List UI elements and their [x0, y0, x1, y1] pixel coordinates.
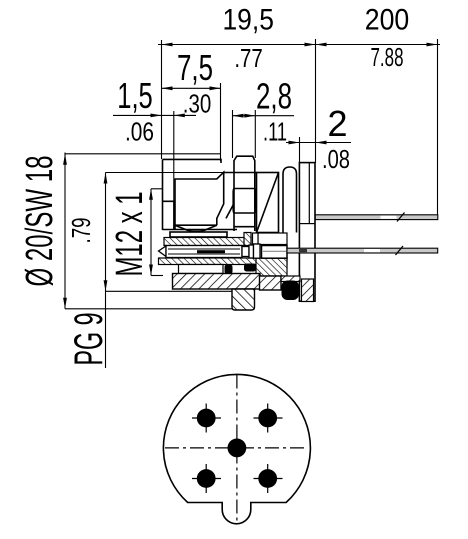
contact collar 2 — [254, 244, 261, 258]
o-ring small 2 — [244, 264, 256, 272]
pin 3 bottom-left — [192, 464, 221, 493]
body top crest line — [163, 159, 222, 163]
pin 4 bottom-right — [254, 464, 283, 493]
svg-text:.06: .06 — [125, 117, 154, 147]
gland right bottom hatch — [260, 276, 282, 290]
arrow 7,5 left — [162, 86, 173, 90]
svg-text:Ø 20/SW 18: Ø 20/SW 18 — [19, 156, 61, 287]
dimension PG9 vertical line — [105, 173, 107, 369]
shroud block — [175, 172, 224, 229]
arrow PG9 bottom — [104, 280, 108, 291]
svg-text:.79: .79 — [66, 218, 96, 244]
arrow 200 left — [316, 43, 327, 47]
arrow dia20 bottom — [63, 298, 67, 309]
hatch strip under contact — [159, 258, 288, 265]
arrow M12 top — [149, 189, 153, 200]
dimension 2,8 line — [233, 115, 295, 117]
contact barrel — [166, 246, 242, 258]
arrow 1,5 right — [174, 114, 185, 118]
white block at hex foot — [253, 233, 259, 244]
arrow 200 right — [427, 43, 438, 47]
extension line x255.3 — [254, 110, 256, 158]
svg-text:7,5: 7,5 — [177, 47, 213, 88]
flange plate — [299, 163, 315, 302]
pin 2 top-right — [254, 404, 283, 433]
arrow 2,8 right — [244, 114, 255, 118]
gasket dome — [283, 167, 297, 233]
arrow 19,5 right — [305, 43, 316, 47]
flange lower hatch — [302, 279, 314, 302]
cone piece — [257, 173, 279, 233]
svg-text:19,5: 19,5 — [222, 4, 274, 37]
thread relief block — [163, 201, 175, 229]
face view outline — [163, 374, 310, 523]
carrier hatch band top — [164, 238, 251, 246]
extension line x299.5 — [299, 137, 301, 163]
arrow PG9 top — [104, 173, 108, 184]
extension line y308.8 — [65, 308, 233, 310]
PG9 thread tab hatch — [232, 289, 255, 310]
body left edge — [162, 159, 164, 230]
termination barrel — [262, 246, 288, 259]
white block under dome — [258, 233, 287, 245]
o-ring small 1 — [225, 265, 233, 275]
extension line x173.8 — [173, 111, 175, 230]
dimension dia20 SW18 vertical line — [64, 153, 66, 309]
extension line x161.5 — [161, 40, 163, 159]
shroud chevron — [175, 225, 217, 231]
svg-text:.77: .77 — [234, 43, 263, 73]
extension line y153.8 — [65, 153, 221, 155]
dimension 7,5 line — [162, 87, 221, 89]
bridge top face — [224, 172, 257, 174]
contact step — [242, 247, 249, 257]
contact black dash — [197, 250, 225, 253]
svg-text:2,8: 2,8 — [256, 76, 292, 117]
svg-text:.30: .30 — [183, 89, 212, 119]
arrow 19,5 left — [162, 43, 173, 47]
arrow dia20 top — [63, 154, 67, 165]
carrier cavity white — [179, 265, 224, 274]
svg-text:PG 9: PG 9 — [67, 313, 111, 366]
hex nut column — [234, 156, 255, 231]
extension line y291.3 — [106, 290, 233, 292]
panel o-ring black — [282, 281, 300, 301]
wire top — [315, 213, 438, 222]
pin 1 top-left — [192, 404, 221, 433]
contact collar 1 — [249, 245, 254, 258]
extension line y275.5 — [151, 275, 163, 277]
arrow 2 left outside — [289, 141, 300, 145]
shroud bottom line — [163, 229, 238, 231]
arrow M12 bottom — [149, 265, 153, 276]
arrow 2 right outside — [316, 141, 327, 145]
extension line x437.5 — [437, 39, 439, 215]
svg-text:200: 200 — [365, 4, 410, 37]
hatch strip above o-ring — [281, 276, 300, 282]
extension line y172.5 — [106, 172, 224, 174]
svg-text:M12 x 1: M12 x 1 — [109, 192, 151, 277]
svg-text:1,5: 1,5 — [117, 75, 153, 116]
contact nose cone — [159, 246, 167, 257]
svg-text:2: 2 — [327, 103, 347, 144]
extension line x232.5 — [232, 110, 234, 158]
svg-text:7.88: 7.88 — [371, 42, 404, 72]
connector body outline group — [163, 156, 316, 301]
svg-text:.11: .11 — [263, 117, 287, 147]
svg-text:.08: .08 — [322, 144, 350, 174]
bevel diagonal gap — [226, 204, 234, 219]
extension line x220.5 — [220, 83, 222, 161]
arrow 7,5 right — [210, 86, 221, 90]
face horizontal centerline — [165, 447, 307, 449]
pin 5 center — [228, 439, 247, 458]
dimension 2 line — [286, 142, 351, 144]
extension line x315.5 — [315, 39, 317, 163]
gland mid hatch — [173, 274, 261, 290]
shroud bottom strip rect — [170, 232, 227, 237]
arrow 1,5 left — [151, 114, 162, 118]
extension line y188.8 — [151, 188, 163, 190]
arrow 2,8 left — [233, 114, 244, 118]
dimension 19,5 line — [158, 44, 440, 46]
face vertical centerline — [236, 375, 238, 524]
hatch right mid block — [256, 258, 287, 276]
carrier hatch band top right bit — [244, 233, 251, 246]
wire bottom — [287, 246, 438, 255]
dimension M12 vertical line — [150, 189, 152, 276]
dimension 1,5 line — [113, 114, 196, 116]
shroud cavity bottom — [175, 224, 217, 226]
